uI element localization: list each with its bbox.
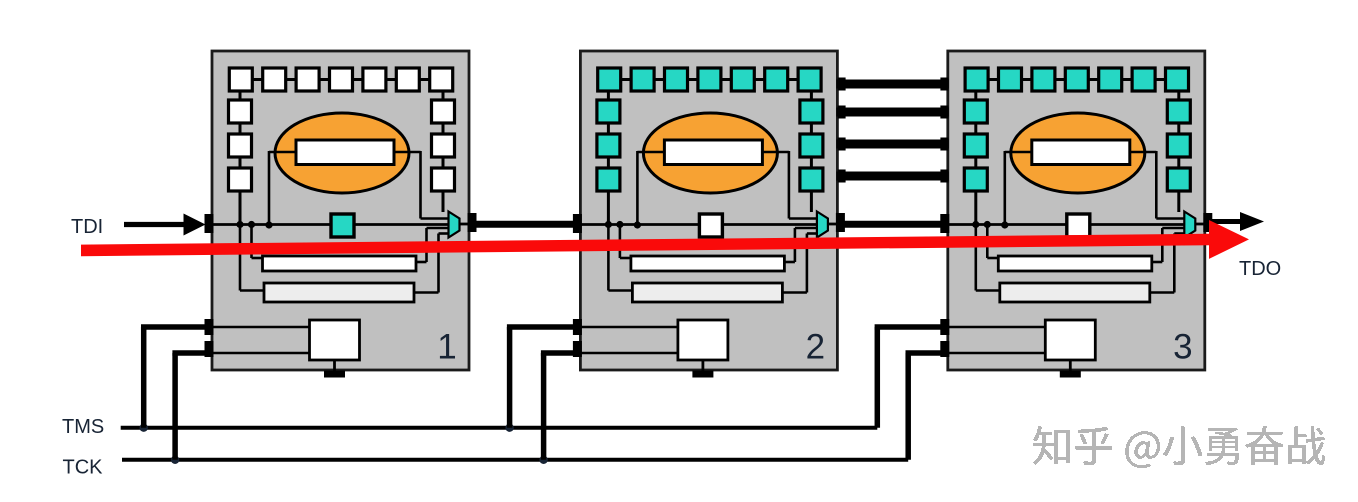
IC 2 boundary-scan cell top 3 [665, 68, 688, 91]
wire: IC 2 left cell chain [607, 91, 610, 100]
IC 1 TDI input pad [205, 214, 214, 233]
wire: IC 3 internal TDI rail (right, to mux) [1090, 223, 1186, 226]
IC 1 boundary-scan cell right 2 [432, 134, 455, 157]
wire: TCK to IC3 riser [905, 353, 911, 460]
wire: IC 2 internal TDI rail (left) [581, 223, 699, 226]
wire: IC 3 TAP controller to ground [1069, 360, 1072, 371]
wire: TCK to IC2 entry [541, 350, 576, 356]
IC 2 body [580, 51, 837, 370]
svg-text:3: 3 [1173, 328, 1192, 367]
IC 3 bypass/data register [1000, 283, 1150, 302]
wire: IC 3 top cell 4 to cell 5 [1088, 78, 1098, 81]
watermark: zhihu @xiaoyongfenzhan [1033, 426, 1325, 468]
wire: IC 2 core right lead [762, 151, 789, 154]
IC 2 TCK pad [573, 341, 582, 357]
IC 3 TDI input pad [940, 214, 949, 233]
IC 3 boundary-scan cell top 1 [965, 68, 988, 91]
IC 3 boundary-scan cell right 1 [1167, 100, 1190, 123]
junction: IC 3 TDI rail / cell column [972, 221, 979, 228]
wire: IC 3 core right lead [1130, 151, 1157, 154]
wire: IC 2 internal TDI rail (right, to mux) [722, 223, 818, 226]
wire: IC 3 TDI tap down to instruction register [986, 225, 989, 259]
wire: IC 1 top cell 6 to cell 7 [419, 78, 429, 81]
IC 2 TDI input pad [573, 214, 582, 233]
wire: IC 2 top cell 6 to cell 7 [788, 78, 798, 81]
IC 1 TCK pad [205, 341, 214, 357]
wire: IC 1 core left lead [269, 151, 296, 154]
IC 1 boundary-scan cell left 2 [229, 134, 252, 157]
wire: IC 3 top cell 3 to cell 4 [1055, 78, 1065, 81]
IC 3 bypass cell [1067, 214, 1090, 237]
wire: IC 2 TMS pad to TAP controller [581, 326, 678, 329]
wire: IC 3 TDI tap down to bypass register [974, 225, 977, 291]
wire: IC 3 core left lead [1005, 151, 1032, 154]
IC 2 data pad 1 [838, 78, 846, 91]
IC 1 boundary-scan cell left 3 [229, 168, 252, 191]
IC 3 data pad 1 [940, 78, 948, 91]
wire: IC 1 TDI tap down to instruction register [250, 225, 253, 259]
IC 3 data pad 2 [940, 106, 948, 119]
wire: IC 3 top cell 1 to cell 2 [988, 78, 998, 81]
wire: IC 2 right cell column down to output mux [810, 191, 813, 212]
junction: TCK / IC1 branch [171, 456, 179, 464]
IC 3 TDO output mux [1184, 212, 1195, 238]
wire: IC 3 TCK pad to TAP controller [949, 352, 1046, 355]
IC 3 data pad 4 [940, 170, 948, 183]
svg-text:TMS: TMS [62, 416, 104, 438]
IC 2 boundary-scan cell left 2 [597, 134, 620, 157]
wire: TMS to IC3 riser [875, 327, 881, 428]
wire: IC 1 top cell 1 to cell 2 [252, 78, 262, 81]
wire: IC2 TDO to IC3 TDI [842, 221, 942, 228]
IC 3 boundary-scan cell top 7 [1166, 68, 1189, 91]
wire: TCK to IC3 entry [906, 350, 943, 356]
svg-text:1: 1 [437, 328, 456, 367]
IC 3 boundary-scan cell top 3 [1032, 68, 1055, 91]
wire: IC 2 top cell 1 to cell 2 [621, 78, 631, 81]
IC 2 TMS pad [573, 319, 582, 335]
wire: IC 1 TMS pad to TAP controller [213, 326, 310, 329]
wire: IC 2 TCK pad to TAP controller [581, 352, 678, 355]
wire: IC 1 instruction register to mux [416, 261, 427, 264]
wire: IC 2 left cell column down to TDI rail [607, 191, 610, 225]
wire: TMS to IC1 riser [141, 327, 147, 428]
wire: IC 3 top cell 5 to cell 6 [1122, 78, 1132, 81]
wire: IC 3 TMS pad to TAP controller [949, 326, 1046, 329]
IC 1 bypass cell [331, 214, 354, 237]
wire: parallel data line 3 IC2 to IC3 [836, 140, 948, 149]
IC 2 core (ellipse) [643, 113, 777, 193]
IC 1 TAP controller [310, 320, 360, 360]
wire: TCK trunk [122, 458, 908, 462]
wire: parallel data line 2 IC2 to IC3 [836, 108, 948, 117]
IC 3 boundary-scan cell top 6 [1132, 68, 1155, 91]
wire: TCK to IC1 entry [172, 350, 207, 356]
wire: IC 1 internal TDI rail (left) [213, 223, 331, 226]
IC 3 body [948, 51, 1205, 370]
wire: IC 1 mux output to TDO pad [460, 223, 471, 226]
wire: parallel data line 1 IC2 to IC3 [836, 80, 948, 89]
wire: IC 1 left cell column down to TDI rail [239, 191, 242, 225]
IC 3 TCK pad [940, 341, 949, 357]
IC 3 core (ellipse) [1011, 113, 1145, 193]
wire: IC 1 bypass register to mux [414, 291, 439, 294]
IC 3 TDO output pad [1203, 213, 1212, 232]
IC 2 boundary-scan cell right 2 [800, 134, 823, 157]
junction: IC 3 core/TDI rail [1001, 221, 1008, 228]
wire: parallel data line 4 IC2 to IC3 [836, 172, 948, 181]
wire: IC 1 TCK pad to TAP controller [213, 352, 310, 355]
junction: TMS / IC2 branch [505, 424, 513, 432]
IC 3 boundary-scan cell left 1 [964, 100, 987, 123]
IC 3 boundary-scan cell right 3 [1167, 168, 1190, 191]
wire: IC 1 core left drop to TDI rail [268, 151, 271, 225]
wire: IC 3 right cell column down to output mux [1177, 191, 1180, 212]
ground: IC 1 [324, 371, 345, 378]
IC 2 boundary-scan cell left 1 [597, 100, 620, 123]
junction: IC 1 TDI rail / register tap [248, 221, 255, 228]
svg-text:TDO: TDO [1239, 258, 1281, 280]
IC 2 boundary-scan cell top 6 [765, 68, 788, 91]
IC 1 boundary-scan cell top 7 [430, 68, 453, 91]
IC 3 TAP controller [1045, 320, 1095, 360]
IC 2 boundary-scan cell top 1 [598, 68, 621, 91]
IC 2 TDO output pad [836, 213, 845, 232]
wire: TDO output [1212, 219, 1243, 224]
wire: IC 2 mux output to TDO pad [828, 223, 839, 226]
IC 3 boundary-scan cell left 3 [964, 168, 987, 191]
red arrow: scan path through all ICs [81, 220, 1249, 259]
IC 2 boundary-scan cell top 2 [631, 68, 654, 91]
IC 2 boundary-scan cell left 3 [597, 168, 620, 191]
wire: IC 1 TDI tap down to bypass register [239, 225, 242, 291]
junction: TCK / IC2 branch [539, 456, 547, 464]
wire: IC 3 left cell column down to TDI rail [974, 191, 977, 225]
IC 3 instruction register [998, 256, 1152, 271]
wire: IC 1 top cell 5 to cell 6 [386, 78, 396, 81]
wire: IC 1 right cell column down to output mux [442, 191, 445, 212]
IC 2 core register [664, 140, 762, 165]
wire: IC 1 right cell chain [442, 91, 445, 100]
junction: IC 3 TDI rail / register tap [984, 221, 991, 228]
wire: IC 3 top cell 2 to cell 3 [1022, 78, 1032, 81]
wire: TCK to IC1 riser [172, 353, 178, 460]
arrowhead: TDI [184, 214, 206, 236]
IC 2 bypass/data register [632, 283, 782, 302]
wire: TMS to IC2 riser [507, 327, 513, 428]
wire: IC 2 core left drop to TDI rail [636, 151, 639, 225]
IC 2 TDO output mux [817, 212, 828, 238]
wire: IC 1 top cell 2 to cell 3 [286, 78, 296, 81]
IC 2 boundary-scan cell right 3 [800, 168, 823, 191]
wire: IC 2 instruction register to mux [784, 261, 795, 264]
wire: TMS to IC2 entry [507, 324, 576, 330]
wire: IC 3 core left drop to TDI rail [1003, 151, 1006, 225]
wire: IC 2 top cell 5 to cell 6 [754, 78, 764, 81]
IC 1 TDO output mux [449, 212, 460, 238]
IC 1 boundary-scan cell top 6 [396, 68, 419, 91]
IC 1 TDO output pad [468, 213, 477, 232]
wire: IC 2 top cell 2 to cell 3 [654, 78, 664, 81]
wire: IC 1 core right drop to mux [419, 151, 422, 219]
wire: IC 3 instruction register to mux [1152, 261, 1163, 264]
wire: TDI input [124, 222, 186, 227]
IC 1 boundary-scan cell right 1 [432, 100, 455, 123]
svg-text:TCK: TCK [63, 457, 104, 479]
svg-text:2: 2 [806, 328, 825, 367]
IC 2 data pad 3 [838, 138, 846, 151]
IC 1 boundary-scan cell top 5 [363, 68, 386, 91]
wire: IC 2 TDI tap down to bypass register [607, 225, 610, 291]
wire: IC 2 TAP controller to ground [702, 360, 705, 371]
IC 1 boundary-scan cell top 1 [229, 68, 252, 91]
IC 2 instruction register [631, 256, 785, 271]
junction: TMS / IC1 branch [140, 424, 148, 432]
wire: IC 2 TDI tap down to instruction register [619, 225, 622, 259]
IC 1 boundary-scan cell top 4 [330, 68, 353, 91]
junction: IC 1 TDI rail / cell column [236, 221, 243, 228]
wire: IC 1 core right lead [394, 151, 421, 154]
IC 1 bypass/data register [264, 283, 414, 302]
IC 2 bypass cell [699, 214, 722, 237]
wire: IC 3 top cell 6 to cell 7 [1155, 78, 1165, 81]
IC 2 TAP controller [678, 320, 728, 360]
wire: TMS trunk [121, 426, 878, 430]
IC 1 body [212, 51, 469, 370]
junction: IC 2 TDI rail / cell column [605, 221, 612, 228]
ground: IC 2 [692, 371, 713, 378]
IC 1 boundary-scan cell right 3 [432, 168, 455, 191]
junction: IC 2 TDI rail / register tap [616, 221, 623, 228]
IC 2 boundary-scan cell top 4 [698, 68, 721, 91]
wire: IC 1 top cell 4 to cell 5 [353, 78, 363, 81]
IC 1 boundary-scan cell top 2 [263, 68, 286, 91]
wire: IC 2 bypass register to mux [782, 291, 807, 294]
wire: IC 2 top cell 3 to cell 4 [688, 78, 698, 81]
wire: IC 3 mux output to TDO pad [1195, 223, 1206, 226]
wire: IC 2 top cell 4 to cell 5 [721, 78, 731, 81]
wire: TMS to IC1 entry [141, 324, 207, 330]
IC 2 boundary-scan cell top 5 [731, 68, 754, 91]
wire: IC 1 TAP controller to ground [333, 360, 336, 371]
IC 1 core register [296, 140, 394, 165]
wire: IC 2 core left lead [637, 151, 664, 154]
IC 2 data pad 4 [838, 170, 846, 183]
wire: IC1 TDO to IC2 TDI [474, 221, 575, 228]
ground: IC 3 [1060, 371, 1081, 378]
IC 2 boundary-scan cell right 1 [800, 100, 823, 123]
IC 3 core register [1032, 140, 1130, 165]
wire: IC 3 left cell chain [974, 91, 977, 100]
arrowhead: TDO [1240, 212, 1264, 231]
IC 3 boundary-scan cell top 4 [1065, 68, 1088, 91]
junction: IC 1 core/TDI rail [265, 221, 272, 228]
junction: IC 2 core/TDI rail [634, 221, 641, 228]
wire: IC 2 right cell chain [810, 91, 813, 100]
IC 3 boundary-scan cell top 5 [1099, 68, 1122, 91]
wire: IC 1 internal TDI rail (right, to mux) [354, 223, 450, 226]
wire: IC 1 top cell 3 to cell 4 [319, 78, 329, 81]
wire: TMS to IC3 entry [875, 324, 943, 330]
wire: IC 3 internal TDI rail (left) [949, 223, 1067, 226]
IC 3 boundary-scan cell top 2 [999, 68, 1022, 91]
svg-text:TDI: TDI [71, 216, 103, 238]
IC 3 boundary-scan cell left 2 [964, 134, 987, 157]
wire: IC 2 core right drop to mux [788, 151, 791, 219]
wire: IC 3 bypass register to mux [1150, 291, 1175, 294]
IC 3 boundary-scan cell right 2 [1167, 134, 1190, 157]
IC 2 boundary-scan cell top 7 [798, 68, 821, 91]
wire: IC 1 left cell chain [239, 91, 242, 100]
IC 2 data pad 2 [838, 106, 846, 119]
wire: IC 3 core right drop to mux [1155, 151, 1158, 219]
IC 3 TMS pad [940, 319, 949, 335]
IC 1 boundary-scan cell left 1 [229, 100, 252, 123]
IC 1 instruction register [263, 256, 417, 271]
wire: TCK to IC2 riser [541, 353, 547, 460]
IC 1 core (ellipse) [275, 113, 409, 193]
wire: IC 3 right cell chain [1177, 91, 1180, 100]
IC 1 boundary-scan cell top 3 [296, 68, 319, 91]
IC 1 TMS pad [205, 319, 214, 335]
IC 3 data pad 3 [940, 138, 948, 151]
